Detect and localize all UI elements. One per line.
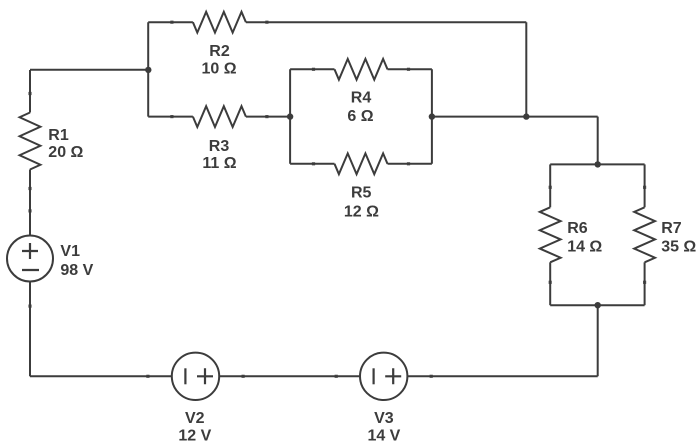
wire: [148, 21, 193, 23]
resistor R7: [634, 207, 655, 262]
resistor R4: [335, 59, 388, 80]
voltage source V3: [360, 353, 407, 400]
node junction dot: [595, 302, 601, 308]
svg-text:10 Ω: 10 Ω: [201, 61, 236, 78]
resistor R3: [193, 106, 246, 127]
svg-text:V3: V3: [374, 410, 394, 427]
resistor R1: [20, 113, 41, 170]
svg-text:14 Ω: 14 Ω: [567, 239, 602, 256]
wire: [644, 164, 646, 207]
svg-text:35 Ω: 35 Ω: [661, 239, 696, 256]
resistor R5: [335, 153, 388, 174]
V2 plus sign: [197, 368, 213, 384]
wire: [290, 68, 334, 70]
wire: [29, 170, 31, 236]
pin end mark V1: [28, 209, 31, 212]
pin end mark R7: [643, 186, 646, 189]
resistor R6: [540, 207, 561, 262]
wire: [525, 22, 527, 116]
svg-text:R4: R4: [351, 90, 372, 107]
svg-text:12 Ω: 12 Ω: [344, 204, 379, 221]
wire: [597, 117, 599, 165]
voltage source V2: [172, 353, 219, 400]
V2 minus bar: [184, 368, 186, 384]
V1 plus sign: [22, 243, 38, 259]
wire: [147, 22, 149, 116]
wire: [431, 69, 433, 164]
voltage source V1: [7, 236, 53, 282]
node junction dot: [287, 113, 293, 119]
wire: [597, 305, 599, 376]
pin end mark R5: [312, 162, 315, 165]
pin end mark R2: [170, 21, 173, 24]
V3 minus bar: [373, 368, 375, 384]
pin end mark R4: [312, 68, 315, 71]
svg-text:R2: R2: [209, 43, 230, 60]
svg-text:11 Ω: 11 Ω: [202, 155, 236, 172]
pin end mark V2: [146, 375, 149, 378]
svg-text:12 V: 12 V: [178, 427, 211, 444]
svg-text:20 Ω: 20 Ω: [48, 144, 83, 161]
svg-text:R7: R7: [661, 220, 682, 237]
wire: [219, 375, 360, 377]
pin end mark R1: [28, 92, 31, 95]
wire: [290, 163, 334, 165]
wire: [246, 21, 526, 23]
svg-text:R6: R6: [567, 220, 588, 237]
wire: [549, 262, 551, 305]
resistor R2: [193, 12, 246, 33]
wire: [388, 163, 432, 165]
wire: [550, 163, 644, 165]
svg-text:R3: R3: [209, 138, 230, 155]
svg-text:6 Ω: 6 Ω: [347, 108, 373, 125]
wire: [29, 282, 31, 377]
svg-text:V2: V2: [185, 410, 205, 427]
pin end mark V3: [335, 375, 338, 378]
node junction dot: [145, 67, 151, 73]
svg-text:V1: V1: [60, 243, 80, 260]
wire: [148, 116, 193, 118]
svg-text:R5: R5: [351, 185, 372, 202]
wire: [30, 69, 148, 71]
pin end mark R3: [170, 115, 173, 118]
wire: [388, 68, 432, 70]
V1 minus sign: [22, 269, 39, 271]
wire: [289, 69, 291, 164]
node junction dot: [523, 113, 529, 119]
V3 plus sign: [385, 368, 401, 384]
pin end mark R6: [549, 186, 552, 189]
wire: [644, 262, 646, 305]
wire: [550, 304, 644, 306]
wire: [29, 70, 31, 113]
svg-text:R1: R1: [48, 127, 69, 144]
node junction dot: [429, 113, 435, 119]
svg-text:98 V: 98 V: [60, 262, 93, 279]
wire: [30, 375, 172, 377]
wire: [432, 116, 598, 118]
wire: [549, 164, 551, 207]
node junction dot: [595, 161, 601, 167]
svg-text:14 V: 14 V: [367, 427, 400, 444]
wire: [407, 375, 597, 377]
wire: [246, 116, 290, 118]
